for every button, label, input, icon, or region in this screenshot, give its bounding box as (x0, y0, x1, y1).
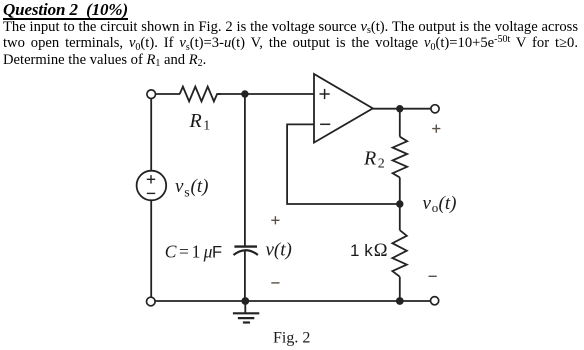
svg-text:C=1μF: C=1μF (165, 242, 222, 262)
svg-text:2: 2 (378, 156, 385, 171)
svg-text:o: o (432, 200, 439, 215)
svg-text:Fig. 2: Fig. 2 (273, 329, 310, 346)
svg-text:1: 1 (203, 118, 210, 133)
svg-text:1: 1 (350, 241, 359, 260)
svg-text:R: R (189, 110, 202, 132)
svg-text:k: k (364, 241, 373, 260)
svg-text:(t): (t) (439, 193, 457, 214)
svg-text:v: v (423, 193, 432, 214)
svg-text:(t): (t) (191, 176, 209, 197)
svg-text:Ω: Ω (374, 241, 388, 261)
svg-text:v: v (175, 176, 184, 197)
svg-text:v(t): v(t) (266, 240, 292, 261)
svg-text:R: R (363, 147, 376, 169)
svg-text:s: s (184, 185, 189, 200)
